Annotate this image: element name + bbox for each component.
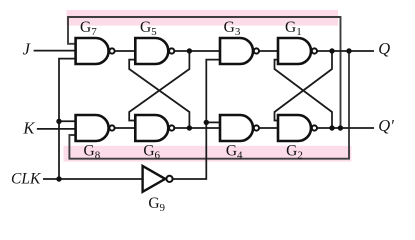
svg-text:J: J xyxy=(23,40,31,59)
svg-text:Q: Q xyxy=(378,39,390,58)
svg-text:G8: G8 xyxy=(84,142,101,161)
svg-text:G6: G6 xyxy=(143,142,160,161)
svg-text:K: K xyxy=(22,119,35,138)
svg-text:Q′: Q′ xyxy=(378,116,394,135)
svg-text:G9: G9 xyxy=(148,195,165,214)
svg-text:CLK: CLK xyxy=(11,171,41,188)
svg-text:G4: G4 xyxy=(226,142,243,161)
svg-text:G2: G2 xyxy=(286,142,303,161)
